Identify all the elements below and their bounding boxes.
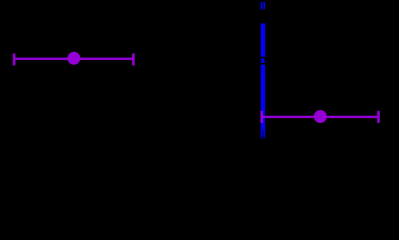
error bar 2 horizontal line (262, 116, 379, 118)
reference line dash segment 3 (short) (261, 58, 264, 63)
data point marker 2 (314, 110, 327, 123)
error bar 1 right cap (132, 53, 135, 65)
reference line bottom dash (split double bar, fading) (261, 129, 265, 139)
reference line dash segment 4 (long) (261, 65, 265, 130)
reference line dash segment 2 (261, 23, 265, 56)
reference line top dash (split double bar) (261, 2, 265, 9)
data point marker 1 (67, 52, 80, 65)
error bar 2 right cap (377, 111, 380, 123)
error bar 1 left cap (13, 53, 16, 65)
error bar 1 horizontal line (14, 58, 133, 60)
error bar 2 left cap (260, 111, 263, 123)
